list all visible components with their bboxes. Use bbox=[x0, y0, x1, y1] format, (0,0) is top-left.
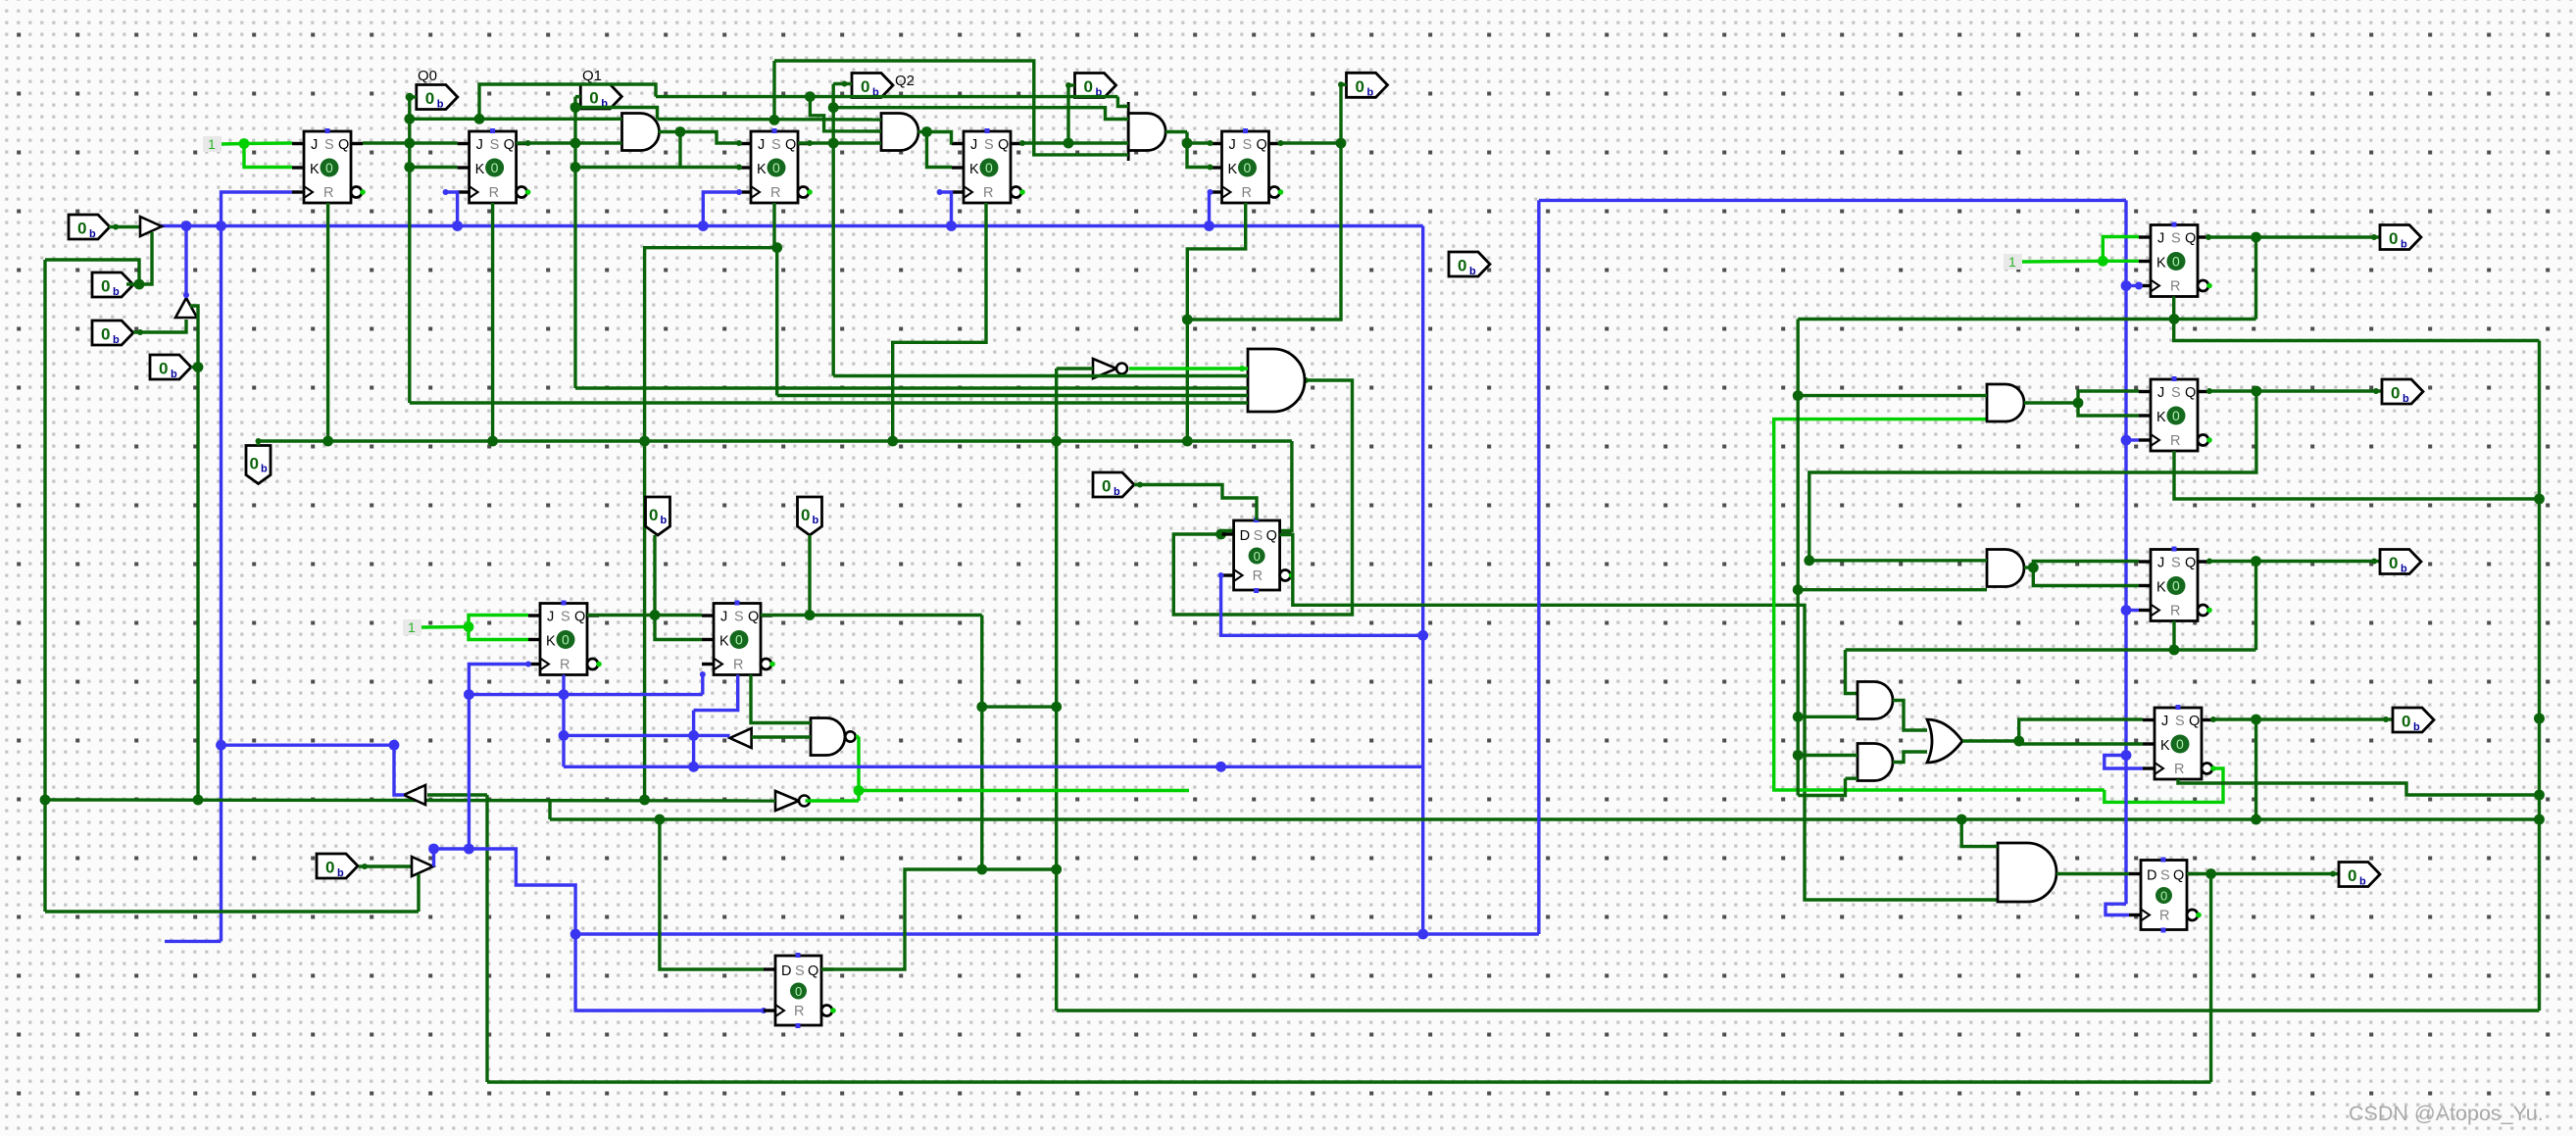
svg-text:0: 0 bbox=[795, 984, 802, 999]
svg-text:0: 0 bbox=[250, 455, 259, 473]
wire to C1.in1 bbox=[1846, 650, 1858, 694]
wire E0.out loop to D1.D bbox=[1173, 380, 1352, 615]
wire x2169 clock rail bbox=[2124, 200, 2127, 904]
svg-text:0: 0 bbox=[2391, 384, 2400, 403]
svg-text:R: R bbox=[770, 185, 780, 201]
wire FF2 clock bbox=[446, 192, 458, 226]
wire P5 stub bbox=[257, 441, 260, 446]
node FF6 clock bbox=[2121, 280, 2132, 291]
svg-text:R: R bbox=[2170, 279, 2180, 295]
wire staircase D3 clock bbox=[434, 849, 765, 1011]
wire y782 long blue bbox=[564, 766, 1423, 768]
wire right clock top bbox=[1539, 199, 2126, 202]
wire to FF6.J bbox=[2103, 237, 2139, 262]
wire CB2 out bbox=[184, 226, 187, 299]
wire clock bus drop bbox=[1421, 226, 1424, 935]
wire y960 blue bbox=[165, 940, 222, 943]
node FF6.R join bbox=[2169, 314, 2180, 324]
wire Q0 vertical bbox=[408, 97, 411, 403]
wire const1 bbox=[222, 142, 244, 146]
wire B1-FF7.K bbox=[2078, 403, 2139, 416]
wire B5 out bbox=[432, 849, 435, 866]
svg-text:0: 0 bbox=[159, 360, 168, 378]
buffer (facing up) CB2 bbox=[175, 298, 197, 318]
wire FFL1.Q-FFL2.J bbox=[587, 614, 702, 617]
wire FFL2.Q drop bbox=[980, 616, 983, 870]
output pin PM1 bbox=[1449, 252, 1490, 276]
svg-text:K: K bbox=[757, 162, 767, 177]
svg-text:0: 0 bbox=[801, 506, 810, 524]
svg-text:0: 0 bbox=[649, 506, 658, 524]
svg-text:0: 0 bbox=[2172, 408, 2180, 423]
svg-text:J: J bbox=[1229, 137, 1236, 153]
wire FF4 clock bbox=[940, 192, 952, 226]
wire Q2 vertical bbox=[832, 84, 835, 376]
D flip-flop D2 bbox=[2129, 858, 2202, 933]
wire C1-OR bbox=[1893, 701, 1927, 731]
constant 1 input bbox=[403, 619, 421, 635]
wire to FF1 J bbox=[244, 141, 292, 145]
wire bright long bbox=[859, 789, 1189, 792]
wire reset line bbox=[259, 439, 1292, 442]
node FF8 clock bbox=[2121, 605, 2132, 616]
wire E0.i5 bbox=[410, 401, 1248, 404]
svg-text:D: D bbox=[1240, 528, 1250, 544]
wire x1569 blue bbox=[1537, 200, 1540, 934]
wire FF9.R bbox=[2178, 779, 2540, 795]
wire y953 blue bbox=[575, 932, 1539, 935]
svg-text:Q: Q bbox=[504, 137, 515, 153]
wire C2.in1 bbox=[1798, 754, 1858, 757]
svg-text:b: b bbox=[2359, 876, 2366, 888]
svg-text:J: J bbox=[311, 137, 318, 153]
svg-text:Q: Q bbox=[808, 963, 818, 979]
wire A3-FF5.K bbox=[1187, 143, 1211, 168]
JK flip-flop FF8 bbox=[2139, 547, 2212, 621]
wire to FF6.K bbox=[2103, 260, 2139, 263]
wire A1-FF3.J bbox=[680, 132, 739, 144]
svg-text:S: S bbox=[2171, 556, 2181, 571]
svg-text:0: 0 bbox=[101, 277, 110, 296]
wire y1031 long bbox=[1057, 1009, 2540, 1012]
svg-text:K: K bbox=[2156, 580, 2166, 596]
AND gate B1 bbox=[1987, 384, 2024, 421]
wire A2.in2 step bbox=[810, 97, 881, 131]
wire FF6.Q drop bbox=[2254, 237, 2257, 320]
JK flip-flop FF1 bbox=[292, 128, 366, 203]
svg-text:Q: Q bbox=[2185, 556, 2196, 571]
svg-text:Q: Q bbox=[998, 137, 1009, 153]
output pin PR5 bbox=[2339, 863, 2380, 887]
wire D2.Q drop bbox=[2209, 874, 2212, 1083]
JK flip-flop FFL2 bbox=[702, 601, 775, 675]
wire P2 up-left bbox=[45, 260, 139, 284]
JK flip-flop FF5 bbox=[1211, 128, 1284, 203]
output pin Q2 bbox=[852, 74, 893, 98]
svg-text:J: J bbox=[476, 137, 483, 153]
svg-text:Q: Q bbox=[2185, 385, 2196, 401]
output pin PR3 bbox=[2380, 550, 2421, 574]
wire B2-FF8.K bbox=[2033, 568, 2139, 586]
wire FF5.Q down-west bbox=[1187, 143, 1341, 320]
OR gate D1OR bbox=[1927, 719, 1962, 763]
svg-text:Q: Q bbox=[2173, 868, 2184, 884]
wire FF5 clock bbox=[1210, 192, 1211, 226]
wire const1L bbox=[421, 625, 469, 629]
wire FF1 clock rail bbox=[222, 192, 293, 941]
wire E0.i2 bbox=[833, 374, 1248, 377]
svg-text:b: b bbox=[2403, 393, 2409, 405]
svg-text:b: b bbox=[113, 286, 120, 298]
wire to P7 bbox=[653, 535, 656, 616]
node bus-CB2 bbox=[181, 221, 192, 231]
JK flip-flop FF9 bbox=[2143, 705, 2216, 779]
wire N1 input bbox=[1057, 367, 1093, 370]
svg-text:S: S bbox=[2171, 385, 2181, 401]
svg-text:b: b bbox=[261, 464, 268, 475]
wire FF5.Q bbox=[1281, 141, 1342, 144]
svg-text:Q: Q bbox=[785, 137, 796, 153]
wire top long to A3.in4 bbox=[774, 61, 1128, 155]
wire CB1 control bbox=[139, 232, 152, 284]
svg-text:Q: Q bbox=[1257, 137, 1267, 153]
svg-text:Q2: Q2 bbox=[895, 73, 915, 89]
wire C1.in2 bbox=[1798, 716, 1858, 718]
wire into A3.in1 bbox=[1117, 97, 1128, 107]
wire x2590 R rail bbox=[2538, 341, 2541, 1012]
svg-text:0: 0 bbox=[985, 160, 993, 175]
AND gate C2 bbox=[1858, 744, 1893, 781]
wire bright riser x876 bbox=[857, 737, 860, 802]
svg-text:0: 0 bbox=[2389, 229, 2398, 248]
svg-text:S: S bbox=[795, 963, 805, 979]
wire N2 out bbox=[806, 799, 860, 802]
AND gate A3 bbox=[1128, 114, 1165, 151]
svg-text:0: 0 bbox=[1084, 77, 1093, 96]
wire A1-FF3.K bbox=[680, 166, 739, 169]
svg-text:0: 0 bbox=[425, 89, 434, 108]
wire E0.i3 bbox=[575, 386, 1248, 389]
svg-text:Q: Q bbox=[2189, 714, 2200, 729]
output pin PR2 bbox=[2382, 379, 2423, 404]
svg-text:Q: Q bbox=[2185, 231, 2196, 247]
constant 1 input bbox=[2004, 254, 2022, 270]
wire x1834 rail bbox=[1796, 320, 1799, 796]
svg-text:S: S bbox=[2171, 231, 2181, 247]
svg-text:R: R bbox=[2159, 909, 2169, 924]
wire FF8.Q down bbox=[2254, 562, 2257, 651]
D flip-flop D3 bbox=[764, 953, 836, 1028]
wire FF1.R drop bbox=[326, 203, 329, 441]
svg-text:K: K bbox=[475, 162, 485, 177]
wire Q1 bypass A1 bbox=[575, 108, 658, 120]
wire drop to y122 bbox=[772, 61, 775, 120]
svg-text:S: S bbox=[324, 137, 334, 153]
buffer (facing left) CB3 bbox=[730, 728, 752, 748]
svg-text:0: 0 bbox=[1254, 549, 1261, 564]
output pin P4 bbox=[150, 355, 191, 379]
wire to P6 bbox=[808, 535, 811, 616]
svg-text:b: b bbox=[2401, 239, 2407, 251]
wire B2.out bbox=[2024, 566, 2033, 568]
buffer CB1 bbox=[140, 217, 162, 236]
svg-text:0: 0 bbox=[1356, 77, 1364, 96]
node A3out bbox=[1182, 138, 1193, 149]
svg-text:0: 0 bbox=[77, 220, 86, 238]
AND gate B2 bbox=[1987, 550, 2024, 587]
svg-text:Q1: Q1 bbox=[582, 68, 602, 84]
svg-text:0: 0 bbox=[735, 632, 743, 648]
wire y663 bbox=[1846, 648, 2256, 651]
svg-text:K: K bbox=[310, 162, 320, 177]
svg-text:R: R bbox=[2174, 762, 2184, 777]
wire B2.in1 bbox=[1809, 559, 1987, 562]
wire C2-OR bbox=[1893, 752, 1927, 763]
output pin PR1 bbox=[2380, 225, 2421, 250]
svg-text:0: 0 bbox=[1458, 257, 1466, 275]
wire y760 blue bbox=[222, 744, 395, 747]
wire y325 bbox=[1798, 318, 2255, 321]
svg-text:S: S bbox=[561, 610, 570, 625]
wire y1104 long bbox=[487, 1080, 2211, 1083]
svg-text:Q0: Q0 bbox=[418, 68, 437, 84]
svg-text:b: b bbox=[2401, 564, 2407, 575]
wire P4 rail down bbox=[196, 368, 199, 801]
svg-text:J: J bbox=[970, 137, 977, 153]
wire to A3.in2 bbox=[833, 108, 1128, 120]
svg-text:D: D bbox=[781, 963, 791, 979]
wire O1.in1 bbox=[751, 675, 811, 723]
wire N1.out-E0.i1 bbox=[1129, 367, 1248, 370]
svg-text:K: K bbox=[546, 634, 556, 650]
wire P10-B5 bbox=[359, 864, 412, 867]
svg-text:0: 0 bbox=[861, 77, 869, 96]
wire P4 stub bbox=[191, 366, 198, 369]
AND A3 back line bbox=[1127, 102, 1130, 161]
buffer B5 bbox=[412, 857, 433, 876]
svg-text:0: 0 bbox=[2176, 736, 2184, 752]
wire FF6.Q to pin bbox=[2208, 235, 2380, 238]
svg-text:S: S bbox=[2175, 714, 2185, 729]
svg-text:S: S bbox=[1243, 137, 1253, 153]
node FF9 clock jog bbox=[2121, 750, 2132, 761]
svg-text:R: R bbox=[1253, 568, 1263, 584]
wire O1.in2 bbox=[752, 735, 811, 738]
wire clock bus bbox=[160, 224, 1423, 227]
wire FF9.Q drop bbox=[2254, 719, 2257, 819]
wire Q0-FF2.K bbox=[410, 166, 458, 169]
svg-text:0: 0 bbox=[325, 160, 333, 175]
output pin PT4 bbox=[1347, 73, 1388, 97]
svg-text:J: J bbox=[2157, 556, 2164, 571]
wire FF9 clock bbox=[2105, 756, 2143, 769]
svg-text:R: R bbox=[794, 1004, 804, 1019]
node P2 junction bbox=[134, 279, 145, 290]
svg-text:0: 0 bbox=[772, 160, 780, 175]
wire bright to FF9.Qbar bbox=[2105, 768, 2223, 802]
svg-text:0: 0 bbox=[2160, 889, 2167, 904]
output pin P9 bbox=[1093, 472, 1134, 497]
AND gate A1 bbox=[622, 114, 660, 151]
svg-text:1: 1 bbox=[408, 619, 416, 635]
wire OR-FF9.J bbox=[2019, 719, 2143, 741]
wire A2-FF4.K bbox=[927, 132, 953, 168]
JK flip-flop FF2 bbox=[458, 128, 531, 203]
output pin Q1 bbox=[580, 84, 621, 109]
AND gate E0 bbox=[1248, 349, 1305, 412]
svg-text:b: b bbox=[661, 515, 668, 526]
wire A2.out bbox=[918, 130, 927, 133]
svg-text:K: K bbox=[1228, 162, 1238, 177]
svg-text:K: K bbox=[719, 634, 729, 650]
wire Q2 stub bbox=[833, 82, 852, 85]
svg-text:Q: Q bbox=[748, 610, 759, 625]
svg-text:b: b bbox=[337, 867, 344, 879]
wire FF6.R chain bbox=[2174, 297, 2540, 341]
wire FFL2.Q bbox=[761, 614, 982, 617]
wire A3-FF5.J bbox=[1187, 141, 1211, 144]
wire FFL2 clk riser bbox=[701, 673, 704, 695]
svg-text:0: 0 bbox=[2348, 866, 2356, 885]
node D1.D bbox=[1215, 529, 1226, 540]
wire D2.Q to pin bbox=[2187, 872, 2339, 875]
svg-text:R: R bbox=[733, 658, 743, 673]
svg-text:K: K bbox=[969, 162, 979, 177]
wire jog to C2.in2 bbox=[1798, 778, 1845, 795]
svg-text:S: S bbox=[984, 137, 994, 153]
JK flip-flop FF4 bbox=[952, 128, 1025, 203]
NOT gate N1 bbox=[1093, 359, 1116, 378]
svg-text:S: S bbox=[2160, 868, 2170, 884]
node x2590 y733 bbox=[2534, 714, 2545, 724]
svg-text:J: J bbox=[758, 137, 765, 153]
svg-text:b: b bbox=[1367, 86, 1374, 98]
wire A3.out bbox=[1165, 130, 1187, 133]
wire FF3 clock bbox=[703, 192, 739, 226]
wire D1.Q to E1.in2 bbox=[1280, 535, 1998, 901]
svg-text:b: b bbox=[437, 99, 444, 111]
wire y750 blue to CB3 bbox=[564, 734, 730, 737]
svg-text:b: b bbox=[1469, 266, 1476, 277]
output pin P6 bbox=[798, 497, 822, 535]
output pin P3 bbox=[92, 321, 133, 345]
wire B1-FF7.J bbox=[2078, 391, 2139, 403]
wire Q1 vertical bbox=[573, 97, 576, 388]
svg-text:Q: Q bbox=[574, 610, 585, 625]
JK flip-flop FF3 bbox=[739, 128, 813, 203]
AND gate O1 bbox=[811, 718, 845, 756]
node FF7 clock bbox=[2121, 435, 2132, 446]
svg-text:Q: Q bbox=[1266, 528, 1277, 544]
wire B1.out bbox=[2024, 401, 2078, 404]
wire FF1.Q-FF2.J bbox=[363, 141, 458, 144]
svg-text:b: b bbox=[813, 515, 819, 526]
wire A1 down bbox=[678, 132, 681, 168]
constant 1 input bbox=[203, 136, 222, 152]
wire CB4 input bbox=[427, 793, 487, 796]
output pin Q0 bbox=[417, 85, 458, 110]
AND gate E1 bbox=[1998, 843, 2056, 902]
wire FF5.Q up bbox=[1339, 84, 1342, 143]
wire FF3.R loop / x657 rail bbox=[645, 203, 774, 800]
svg-text:S: S bbox=[734, 610, 744, 625]
wire const1R bbox=[2022, 260, 2103, 264]
svg-text:0: 0 bbox=[1244, 160, 1252, 175]
wire D2 clock bbox=[2105, 904, 2129, 914]
wire A2.in1 bbox=[658, 118, 882, 122]
wire D1 clock bbox=[1221, 575, 1423, 635]
output pin PR4 bbox=[2393, 708, 2434, 732]
wire P2 stub bbox=[126, 282, 139, 285]
D flip-flop D1 bbox=[1222, 518, 1295, 593]
svg-text:0: 0 bbox=[2389, 554, 2398, 572]
output pin P10 bbox=[317, 854, 358, 878]
svg-text:R: R bbox=[2170, 604, 2180, 619]
wire CB2 control bbox=[190, 306, 198, 368]
wire FF5.R loop bbox=[1187, 203, 1245, 441]
node FF8.R join bbox=[2169, 645, 2180, 656]
svg-text:1: 1 bbox=[2008, 254, 2016, 270]
wire FF7.R chain bbox=[2174, 451, 2540, 499]
wire FF4.Q-A3.in3 bbox=[1022, 141, 1128, 144]
wire C2.in2 bbox=[1846, 777, 1858, 780]
wire FF7.Q loop bbox=[1809, 391, 2256, 561]
svg-text:K: K bbox=[2156, 256, 2166, 272]
wire to FFL1.K bbox=[469, 627, 528, 640]
wire B2-FF8.J bbox=[2033, 562, 2139, 568]
AND gate A2 bbox=[881, 114, 918, 151]
wire x1077 rail bbox=[1055, 369, 1058, 1011]
wire y98 long bbox=[656, 95, 1117, 98]
wire reset to D1.D bbox=[1222, 441, 1292, 534]
svg-text:0: 0 bbox=[562, 632, 570, 648]
svg-text:D: D bbox=[2147, 868, 2156, 884]
wire B2.in2 bbox=[1798, 588, 1987, 591]
wire y721 bbox=[982, 705, 1057, 708]
wire FFL2.K feed bbox=[655, 616, 702, 640]
svg-text:R: R bbox=[983, 185, 993, 201]
svg-text:0: 0 bbox=[1102, 477, 1111, 496]
svg-text:R: R bbox=[560, 658, 570, 673]
node y326 bbox=[1182, 315, 1193, 325]
wire FF2.Q-A1.in2 bbox=[517, 141, 622, 144]
wire E1.out-D2.D bbox=[2056, 872, 2129, 875]
wire to FFL1.J bbox=[469, 616, 528, 627]
wire FF3.Q-A2.in3 bbox=[798, 141, 881, 144]
wire CB4 out bbox=[394, 745, 404, 795]
wire Q0 top loop bbox=[479, 84, 656, 119]
wire Q0 pin stub bbox=[410, 95, 417, 98]
svg-text:0: 0 bbox=[589, 89, 598, 108]
wire x497 drop bbox=[485, 795, 488, 1082]
wire P9 to D1.S bbox=[1134, 485, 1257, 521]
wire left rail x46 bbox=[43, 260, 46, 912]
svg-text:CSDN @Atopos_Yu.: CSDN @Atopos_Yu. bbox=[2349, 1102, 2544, 1125]
svg-text:R: R bbox=[323, 185, 333, 201]
wire y836 R rail bbox=[550, 817, 2540, 820]
wire E1.in1 bbox=[1961, 819, 1998, 847]
svg-text:0: 0 bbox=[2402, 713, 2410, 731]
output pin P5 bbox=[246, 446, 271, 484]
svg-text:S: S bbox=[771, 137, 781, 153]
svg-text:0: 0 bbox=[491, 160, 499, 175]
svg-text:0: 0 bbox=[325, 859, 334, 877]
svg-text:J: J bbox=[547, 610, 554, 625]
wire to FF1 K bbox=[244, 144, 292, 168]
JK flip-flop FF7 bbox=[2139, 376, 2212, 451]
node bus-FF1clk bbox=[216, 221, 226, 231]
wire to PT3 bbox=[1066, 85, 1069, 143]
